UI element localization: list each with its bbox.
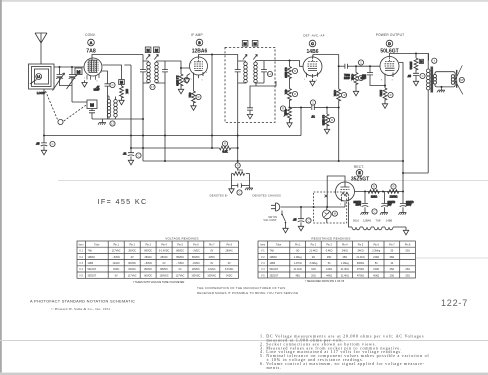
svg-text:150V: 150V <box>356 205 362 207</box>
oscillator coil L2 <box>107 96 117 119</box>
IF frequency note <box>98 197 148 206</box>
circled C14 <box>306 218 311 223</box>
legend loop wires <box>232 174 250 186</box>
svg-text:6: 6 <box>97 81 99 83</box>
resistor R2 22K osc grid <box>120 85 130 99</box>
pilot lamp dashed box <box>314 192 347 223</box>
svg-text:8: 8 <box>381 80 383 82</box>
svg-text:40: 40 <box>391 262 394 265</box>
svg-text:122-7: 122-7 <box>441 298 468 308</box>
svg-text:89VDC: 89VDC <box>144 268 152 271</box>
svg-text:40KΩ: 40KΩ <box>373 274 379 277</box>
diode load R5 3.3MEG <box>284 61 292 79</box>
tone cap .05 <box>407 69 419 86</box>
svg-text:600KΩ: 600KΩ <box>357 262 365 265</box>
resistor R6 47K <box>284 78 292 101</box>
svg-text:3.3Meg: 3.3Meg <box>309 262 318 265</box>
wire 12BA6 plate to IF T2 <box>199 55 238 62</box>
trimmer box on osc grid <box>119 80 125 85</box>
T2 primary cap <box>235 61 241 83</box>
circled C8 <box>358 60 363 65</box>
svg-text:A PHOTOFACT STANDARD NOTATION: A PHOTOFACT STANDARD NOTATION SCHEMATIC <box>30 299 135 304</box>
svg-text:8: 8 <box>101 72 103 74</box>
line bypass cap .05 <box>293 207 304 231</box>
svg-text:DENOTES B-: DENOTES B- <box>210 194 228 198</box>
B+ to output transformer <box>403 172 428 174</box>
ground arrow under 7A8 <box>82 80 87 87</box>
svg-text:117VAC: 117VAC <box>112 250 121 253</box>
svg-text:7A8: 7A8 <box>270 250 275 253</box>
T3 secondary coil <box>433 75 436 85</box>
svg-text:M: M <box>155 49 158 53</box>
trimmer box A1 <box>145 47 151 53</box>
svg-text:V 2: V 2 <box>261 256 265 259</box>
label RECT. <box>354 165 364 169</box>
svg-text:89VDC: 89VDC <box>144 250 152 253</box>
svg-text:2200Ω: 2200Ω <box>409 62 413 70</box>
svg-text:3.3 MEG: 3.3 MEG <box>321 115 325 125</box>
volume control R7 500K <box>284 100 292 120</box>
svg-text:Pin 2: Pin 2 <box>129 243 135 246</box>
svg-text:80VDC: 80VDC <box>128 262 136 265</box>
X alignment mark <box>325 195 328 198</box>
coupling cap C7 .01 <box>301 105 327 119</box>
svg-text:M: M <box>254 42 257 46</box>
svg-text:30MFD: 30MFD <box>353 202 361 204</box>
circled R3 <box>184 77 189 82</box>
svg-text:68Ω: 68Ω <box>390 256 395 259</box>
svg-text:R: R <box>294 69 296 73</box>
circled R6 <box>292 91 297 96</box>
svg-text:MMF: MMF <box>361 78 367 80</box>
resistor R14 1200 <box>388 190 399 199</box>
svg-text:4: 4 <box>397 71 399 73</box>
svg-text:0VDC: 0VDC <box>226 274 233 277</box>
svg-text:R: R <box>393 185 395 189</box>
node T1 return crossings <box>142 118 144 120</box>
svg-text:Tube: Tube <box>94 243 100 246</box>
tube V2 12BA6 IF amp <box>190 57 208 78</box>
T2 secondary to diode <box>250 81 276 108</box>
svg-text:28VAC: 28VAC <box>225 250 233 253</box>
svg-text:12BA6: 12BA6 <box>88 256 96 259</box>
svg-text:21.4KΩ: 21.4KΩ <box>309 250 317 253</box>
circled C13 <box>372 209 377 214</box>
svg-text:.01: .01 <box>123 152 127 156</box>
tube V3 14B6 det avc af <box>303 56 322 79</box>
svg-text:6. Volume control at maximum,: 6. Volume control at maximum, no signal … <box>260 361 425 367</box>
svg-text:Tube: Tube <box>276 243 282 246</box>
circled legend <box>235 163 240 168</box>
svg-text:-.8VDC: -.8VDC <box>192 262 200 265</box>
svg-text:12BA6: 12BA6 <box>363 219 372 223</box>
svg-text:V 3: V 3 <box>261 262 265 265</box>
node <box>59 66 61 68</box>
svg-text:89VDC: 89VDC <box>176 256 184 259</box>
legend text 150 <box>237 168 243 172</box>
svg-text:-.7VDC: -.7VDC <box>176 262 184 265</box>
chassis ground on osc <box>98 119 106 125</box>
svg-text:2: 2 <box>321 72 323 74</box>
svg-text:0V: 0V <box>163 262 166 265</box>
svg-text:89VDC: 89VDC <box>192 256 200 259</box>
svg-text:48Ω: 48Ω <box>295 274 300 277</box>
svg-text:470KΩ: 470KΩ <box>357 274 365 277</box>
T2 primary coil <box>238 61 248 83</box>
svg-text:84VAC: 84VAC <box>128 268 136 271</box>
circled R5 <box>292 68 297 73</box>
svg-text:21.4KΩ: 21.4KΩ <box>341 268 349 271</box>
B- arrow below volume <box>287 119 292 128</box>
svg-text:25Ω: 25Ω <box>405 268 410 271</box>
osc trimmer cap <box>89 109 95 120</box>
svg-text:24KΩ: 24KΩ <box>373 256 379 259</box>
label IF AMP <box>191 33 203 37</box>
power switch <box>281 211 288 233</box>
svg-text:C: C <box>312 101 314 105</box>
tuning capacitor C1A <box>53 67 65 91</box>
resistor R3 2.2MEG grid return <box>176 68 183 86</box>
circled L2 <box>110 121 115 126</box>
svg-text:Pin 6: Pin 6 <box>193 243 199 246</box>
svg-text:-.5VDC: -.5VDC <box>112 256 120 259</box>
svg-text:M: M <box>90 103 94 108</box>
trimmer box A4 <box>252 41 258 47</box>
50L6 cathode resistor R11 150 <box>379 78 387 109</box>
cathode line <box>131 147 238 149</box>
svg-text:470K: 470K <box>350 74 354 80</box>
screen wire to B+ <box>399 63 403 192</box>
resistance readings table <box>258 237 415 279</box>
circled C11 <box>50 141 55 146</box>
svg-text:0.4KΩ: 0.4KΩ <box>326 250 333 253</box>
legend captions <box>210 194 281 198</box>
svg-text:1.2Meg: 1.2Meg <box>294 256 303 259</box>
svg-text:1.1Meg: 1.1Meg <box>341 262 350 265</box>
circled R9 <box>341 92 346 97</box>
svg-text:80VDC: 80VDC <box>144 274 152 277</box>
circled C2 <box>110 82 115 87</box>
grid cap C9 <box>361 66 385 85</box>
svg-text:3.3 MEG: 3.3 MEG <box>284 68 288 78</box>
B- arrow below R8 <box>324 125 329 134</box>
svg-text:88VDC: 88VDC <box>176 250 184 253</box>
svg-text:R: R <box>237 164 239 168</box>
svg-text:C: C <box>112 83 114 87</box>
svg-text:50L6GT: 50L6GT <box>270 268 279 271</box>
svg-text:470K: 470K <box>333 90 337 96</box>
50L6 plate top wire <box>390 54 429 61</box>
svg-text:14B6: 14B6 <box>270 262 276 265</box>
svg-text:V 4: V 4 <box>79 268 83 271</box>
svg-text:50L6GT: 50L6GT <box>88 268 97 271</box>
svg-text:IF AMP: IF AMP <box>191 33 203 37</box>
circled M pilot <box>332 211 337 216</box>
svg-text:0V: 0V <box>228 262 231 265</box>
chassis ground speaker <box>437 87 445 92</box>
svg-text:20Ω: 20Ω <box>405 274 410 277</box>
circled R10 <box>358 75 363 80</box>
plate feed wire <box>327 176 345 207</box>
T3 primary coil <box>426 54 430 174</box>
svg-text:0Ω: 0Ω <box>296 250 299 253</box>
svg-text:C: C <box>52 142 54 146</box>
svg-text:28VAC: 28VAC <box>144 256 152 259</box>
T1 secondary coil <box>155 61 165 83</box>
svg-text:20Ω: 20Ω <box>311 274 316 277</box>
legend resistor <box>232 172 250 176</box>
svg-text:0V: 0V <box>210 250 213 253</box>
circled A <box>88 39 95 46</box>
svg-text:1.47KΩ: 1.47KΩ <box>294 262 302 265</box>
B- arrow under 12BA6 <box>184 74 190 84</box>
AC plug <box>271 203 280 211</box>
heater labels <box>353 219 393 223</box>
AVC pickoff corner <box>289 107 291 109</box>
svg-text:Pin 7: Pin 7 <box>389 243 395 246</box>
circled R7 <box>280 106 285 111</box>
circled R8 <box>329 117 334 122</box>
svg-text:50L6: 50L6 <box>353 219 359 223</box>
svg-text:MMF: MMF <box>344 76 350 80</box>
faint crease lines <box>58 180 488 182</box>
svg-text:† TAKEN WITH VACUUM TUBE VOLT: † TAKEN WITH VACUUM TUBE VOLTMETER <box>133 281 185 284</box>
svg-text:14B6: 14B6 <box>88 262 94 265</box>
svg-text:12BA6: 12BA6 <box>270 256 278 259</box>
svg-text:470KΩ: 470KΩ <box>357 268 365 271</box>
svg-text:R: R <box>224 142 226 146</box>
svg-text:12VAC: 12VAC <box>208 268 216 271</box>
svg-text:117VAC: 117VAC <box>176 274 185 277</box>
svg-text:14B6: 14B6 <box>307 49 319 55</box>
svg-text:2.2 MEG: 2.2 MEG <box>176 76 180 86</box>
svg-text:220Ω: 220Ω <box>371 194 377 198</box>
svg-text:DENOTES CHASSIS: DENOTES CHASSIS <box>253 194 282 198</box>
svg-text:Pin 8: Pin 8 <box>405 243 411 246</box>
cathode filter wire <box>355 191 404 193</box>
filter cap C13C <box>399 192 414 215</box>
osc bottom wire <box>92 118 143 120</box>
svg-text:.05: .05 <box>36 142 40 146</box>
svg-text:V 1: V 1 <box>79 250 83 253</box>
label 14B6 <box>307 49 319 55</box>
svg-text:7A8: 7A8 <box>86 49 96 55</box>
T2 secondary coil <box>254 61 264 84</box>
svg-text:33Ω: 33Ω <box>311 268 316 271</box>
svg-text:12VAC: 12VAC <box>112 262 120 265</box>
svg-text:2: 2 <box>340 204 342 206</box>
svg-text:21.4KΩ: 21.4KΩ <box>356 256 364 259</box>
svg-text:-.8VDC: -.8VDC <box>144 262 152 265</box>
T1 secondary cap <box>162 61 168 161</box>
svg-text:21.4KΩ: 21.4KΩ <box>294 268 302 271</box>
legend chassis <box>245 186 253 191</box>
svg-text:C: C <box>360 61 362 65</box>
gang dashed to osc trimmer <box>64 105 87 122</box>
svg-text:M: M <box>77 70 81 75</box>
wire tuning cap bottom rail <box>60 86 88 102</box>
circled B gang <box>58 119 63 124</box>
T2 secondary cap <box>261 61 267 83</box>
label 50L6GT <box>380 49 398 55</box>
T2 primary return <box>237 83 239 161</box>
diode bypass cap <box>247 108 253 119</box>
trimmer box A5 <box>75 68 82 75</box>
svg-text:150Ω: 150Ω <box>373 268 379 271</box>
svg-text:Pin 8: Pin 8 <box>226 243 232 246</box>
svg-text:CONV.: CONV. <box>85 33 96 37</box>
svg-text:R: R <box>373 185 375 189</box>
resistor R8 3.3MEG af grid <box>321 108 329 127</box>
label 7A8 <box>86 49 96 55</box>
svg-text:R: R <box>331 118 333 122</box>
circled C7 <box>310 100 315 105</box>
circled R11 <box>388 92 393 97</box>
circled L4 <box>267 71 272 76</box>
svg-text:Pin 1: Pin 1 <box>113 243 119 246</box>
svg-text:Pin 5: Pin 5 <box>358 243 364 246</box>
gang dashed link <box>46 91 58 120</box>
circled E <box>356 170 363 177</box>
svg-text:50: 50 <box>391 250 394 253</box>
svg-text:105VAC: 105VAC <box>207 274 216 277</box>
wire 7A8 to osc grid network <box>103 65 122 80</box>
wire af network to bus <box>327 100 339 161</box>
wire loop to tube grid <box>54 66 84 68</box>
wire 7A8 plate to IF T1 <box>92 55 143 58</box>
speaker cone <box>455 65 462 94</box>
svg-text:M: M <box>147 49 150 53</box>
svg-text:RECT.: RECT. <box>354 165 364 169</box>
pilot lamp <box>322 207 331 223</box>
T1 adjust arrows <box>146 55 158 60</box>
svg-text:V 5: V 5 <box>79 274 83 277</box>
svg-text:0VDC: 0VDC <box>113 268 120 271</box>
svg-text:C: C <box>308 219 310 223</box>
legend B- arrow <box>229 186 234 194</box>
svg-text:Pin 2: Pin 2 <box>311 243 317 246</box>
svg-text:SP: SP <box>460 78 464 82</box>
T1 primary return to bus <box>142 83 144 161</box>
svg-text:35Z5GT: 35Z5GT <box>351 177 369 183</box>
cathode resistor R4 <box>188 77 195 104</box>
svg-text:R: R <box>294 92 296 96</box>
circled C <box>309 40 316 47</box>
circled C12 <box>136 153 141 158</box>
svg-text:0Ω: 0Ω <box>312 256 315 259</box>
svg-text:25Ω: 25Ω <box>343 256 348 259</box>
wire T1 sec to 12BA6 grid <box>165 61 190 68</box>
svg-text:R: R <box>344 93 346 97</box>
voltage readings table <box>77 237 239 279</box>
pin numbers <box>84 62 399 206</box>
svg-text:Pin 4: Pin 4 <box>342 243 348 246</box>
svg-text:35Z5GT: 35Z5GT <box>88 274 97 277</box>
svg-text:2.2Meg: 2.2Meg <box>372 250 381 253</box>
svg-text:M: M <box>244 42 247 46</box>
svg-text:50: 50 <box>375 262 378 265</box>
svg-text:1200Ω: 1200Ω <box>390 194 398 198</box>
svg-text:0V: 0V <box>131 256 134 259</box>
circled R13 <box>371 184 376 189</box>
label 35Z5GT <box>351 177 369 183</box>
wire 14B6 plate loop <box>313 55 339 67</box>
svg-text:R: R <box>390 93 392 97</box>
svg-text:105VDC: 105VDC <box>160 274 169 277</box>
svg-text:50: 50 <box>328 262 331 265</box>
circled R14 <box>391 184 396 189</box>
node speaker return <box>441 86 443 88</box>
svg-text:1: 1 <box>84 78 86 80</box>
svg-text:28VAC: 28VAC <box>160 256 168 259</box>
svg-text:M: M <box>334 212 336 216</box>
svg-text:M: M <box>120 81 123 85</box>
tube V1 7A8 converter <box>84 58 102 80</box>
resistor R13 220 <box>368 190 379 199</box>
B- arrow below R2 <box>119 97 124 105</box>
svg-text:12BA6: 12BA6 <box>192 49 208 55</box>
svg-text:28VDC: 28VDC <box>128 250 136 253</box>
svg-text:3: 3 <box>392 80 394 82</box>
screen bypass line <box>211 54 213 56</box>
svg-text:THE COOPERATION OF THE MANUFAC: THE COOPERATION OF THE MANUFACTURER OF T… <box>197 286 285 290</box>
circled T3 <box>432 58 437 63</box>
svg-text:14B6: 14B6 <box>386 219 393 223</box>
svg-text:Pin 7: Pin 7 <box>209 243 215 246</box>
filter cap C13A <box>353 192 368 215</box>
loop antenna L1 <box>29 64 55 95</box>
svg-text:C: C <box>239 191 241 195</box>
circled D <box>386 40 393 47</box>
svg-text:22K: 22K <box>125 89 129 94</box>
node grid <box>180 67 182 69</box>
svg-text:24KΩ: 24KΩ <box>357 250 363 253</box>
svg-text:1: 1 <box>191 79 193 81</box>
tube V4 50L6GT power output <box>380 57 399 78</box>
svg-text:1: 1 <box>304 79 306 81</box>
osc pad cap .01 <box>123 65 134 165</box>
svg-text:V 2: V 2 <box>79 256 83 259</box>
svg-text:.01: .01 <box>311 115 315 119</box>
svg-text:105VDC: 105VDC <box>191 274 200 277</box>
svg-text:20Ω: 20Ω <box>390 274 395 277</box>
svg-text:8: 8 <box>345 204 347 206</box>
svg-text:Pin 6: Pin 6 <box>373 243 379 246</box>
osc trimmer box A6 <box>87 100 97 109</box>
svg-text:2VDC: 2VDC <box>209 256 216 259</box>
svg-text:Pin 3: Pin 3 <box>145 243 151 246</box>
capacitor C2 47MMF <box>94 71 111 119</box>
svg-text:.05: .05 <box>293 218 297 222</box>
svg-text:5: 5 <box>316 80 318 82</box>
resistor R9 470K grid <box>333 66 341 101</box>
svg-text:Pin 4: Pin 4 <box>161 243 167 246</box>
svg-text:VOL CONT.: VOL CONT. <box>263 218 277 222</box>
svg-text:20MFD: 20MFD <box>388 202 396 204</box>
heater string <box>349 202 409 235</box>
svg-text:21.4KΩ: 21.4KΩ <box>341 274 349 277</box>
coupling cap C8 7000MMF <box>339 64 356 80</box>
svg-text:28VDC: 28VDC <box>192 268 200 271</box>
svg-text:VOLTAGE READINGS: VOLTAGE READINGS <box>165 237 198 241</box>
circled legend2 <box>237 190 242 195</box>
AC hot wire <box>281 202 346 207</box>
B- bus <box>143 160 403 162</box>
circled R4 <box>196 94 201 99</box>
B- arrow below R3 <box>178 85 183 94</box>
resistor R12 2200 tone <box>409 54 418 71</box>
svg-text:0V: 0V <box>210 262 213 265</box>
